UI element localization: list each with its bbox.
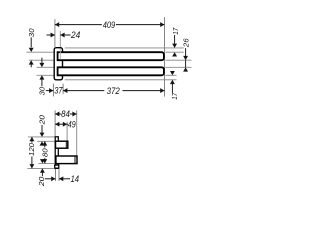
dimension 20 top (side view) bbox=[38, 115, 47, 146]
svg-text:120: 120 bbox=[27, 143, 36, 156]
extension line pivot axis (24 right) bbox=[59, 31, 61, 48]
svg-text:80: 80 bbox=[40, 148, 49, 157]
wall plate column (side view) bbox=[55, 137, 58, 169]
extension line bar2 bottom right bbox=[165, 74, 176, 76]
svg-text:17: 17 bbox=[171, 27, 180, 35]
extension line bar2 top right bbox=[165, 66, 191, 68]
svg-text:14: 14 bbox=[71, 174, 80, 184]
extension line arm1 end (49 right) bbox=[66, 122, 68, 141]
dimension 80 bbox=[40, 141, 49, 163]
svg-text:20: 20 bbox=[38, 115, 47, 126]
dimension 84 bbox=[55, 109, 77, 119]
svg-text:409: 409 bbox=[103, 20, 115, 30]
svg-text:49: 49 bbox=[68, 119, 76, 129]
dimension 372 bbox=[63, 86, 164, 96]
dimension 20 bottom (side view) bbox=[37, 159, 46, 187]
svg-text:17: 17 bbox=[170, 92, 179, 100]
extension line bar2 bottom left bbox=[37, 74, 57, 76]
extension line 37 right (plate front) bbox=[62, 84, 64, 95]
arm 2 end cap line bbox=[74, 157, 76, 164]
dimension 26 right bbox=[181, 37, 190, 71]
arm bar 2 (top view) bbox=[58, 67, 164, 75]
dimension 24 bbox=[47, 30, 81, 40]
dimension 17 top-right bbox=[171, 27, 180, 57]
svg-text:84: 84 bbox=[61, 109, 70, 119]
extension line plate top going right (T1) bbox=[65, 47, 184, 49]
svg-text:24: 24 bbox=[70, 30, 80, 40]
svg-text:30: 30 bbox=[38, 87, 47, 96]
dimension 30 upper-left (bar1 width) bbox=[27, 29, 36, 68]
dimension 30 lower-left (bar2 width) bbox=[38, 58, 47, 96]
extension line right end of bars (409/372 shared) bbox=[164, 17, 166, 96]
extension line arm1 top going left bbox=[37, 140, 55, 142]
extension line left (409/24 shared, plate front edge) bbox=[54, 19, 56, 47]
dimension 17 bottom-right bbox=[170, 71, 179, 100]
svg-text:37: 37 bbox=[54, 86, 63, 96]
extension line bar2 top left bbox=[37, 66, 57, 68]
wall plate (top view) bbox=[54, 48, 62, 80]
pivot axis faint line inside bar1 bbox=[59, 48, 61, 59]
extension line plate top going left bbox=[28, 136, 55, 138]
arm bar 1 (top view) bbox=[58, 52, 164, 60]
extension line wall (84/49 left) bbox=[54, 110, 56, 136]
extension line bar1 top right bbox=[165, 51, 183, 53]
extension line bar1 bottom left bbox=[29, 59, 57, 61]
extension line 14 right bbox=[58, 169, 60, 181]
extension line plate bottom going right (T2) bbox=[65, 79, 177, 81]
arm 1 (side view) bbox=[56, 141, 68, 148]
arm 1 end cap line bbox=[65, 142, 67, 148]
dimension 14 bbox=[45, 174, 79, 184]
svg-text:372: 372 bbox=[107, 86, 120, 96]
dimension 120 bbox=[27, 137, 36, 169]
dimension 49 bbox=[55, 119, 76, 129]
svg-text:20: 20 bbox=[37, 177, 46, 188]
svg-text:26: 26 bbox=[181, 37, 190, 48]
extension line bar1 top left bbox=[26, 51, 56, 53]
dimension 37 bbox=[46, 86, 64, 96]
svg-text:30: 30 bbox=[27, 29, 36, 38]
extension line plate bottom going left bbox=[27, 167, 53, 169]
arm 2 (side view) bbox=[56, 156, 77, 164]
extension line bar1 bottom right bbox=[165, 59, 191, 61]
extension line 14 left bbox=[55, 169, 57, 181]
extension line arm2 end (84 right) bbox=[76, 110, 78, 155]
extension line 37 left (plate back) bbox=[52, 84, 54, 97]
mounting foot (side view) bbox=[55, 165, 59, 168]
dimension 409 bbox=[55, 20, 165, 30]
extension line arm2 bottom going left bbox=[38, 162, 54, 164]
